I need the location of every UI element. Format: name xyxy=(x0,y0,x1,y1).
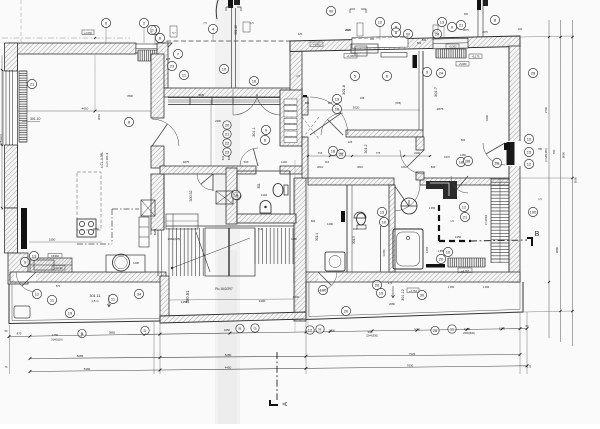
svg-text:+4,060: +4,060 xyxy=(313,44,321,47)
svg-text:23: 23 xyxy=(225,149,230,154)
exterior wall bottom right-section xyxy=(294,272,520,282)
exterior wall right xyxy=(509,46,520,282)
svg-text:1,5: 1,5 xyxy=(250,22,254,25)
svg-text:3+m 301.9: 3+m 301.9 xyxy=(105,153,109,168)
svg-text:775: 775 xyxy=(376,151,381,155)
room 301.8 boundaries xyxy=(422,51,424,130)
svg-text:2075: 2075 xyxy=(482,31,488,34)
duct shaft flue column xyxy=(280,90,302,146)
svg-text:19: 19 xyxy=(68,310,73,315)
svg-text:+1,380: +1,380 xyxy=(347,55,355,58)
svg-text:G: G xyxy=(253,325,256,330)
bed in room 300.52 xyxy=(166,214,198,229)
bottom dimension row 1 xyxy=(9,329,527,337)
svg-text:3020: 3020 xyxy=(353,106,360,110)
toilet lower bath xyxy=(357,213,366,225)
callout circles top strip xyxy=(101,18,110,27)
corridor bottom wall seg2 xyxy=(420,178,509,185)
svg-text:2080: 2080 xyxy=(414,328,421,332)
grid line extension double xyxy=(231,8,233,88)
svg-text:1,050: 1,050 xyxy=(425,246,429,253)
svg-text:20: 20 xyxy=(439,256,444,261)
svg-text:425: 425 xyxy=(298,33,303,36)
door swing xyxy=(197,174,213,190)
svg-text:20: 20 xyxy=(225,122,230,127)
right dim connectors xyxy=(520,36,573,37)
svg-text:21: 21 xyxy=(459,22,464,27)
svg-text:7,5: 7,5 xyxy=(203,22,207,25)
svg-text:B: B xyxy=(81,331,84,336)
svg-text:301.12: 301.12 xyxy=(401,289,405,301)
door swing xyxy=(483,143,505,165)
svg-text:12: 12 xyxy=(462,204,467,209)
svg-text:21: 21 xyxy=(30,81,35,86)
svg-text:840: 840 xyxy=(431,165,436,169)
stairwell left boundary lines xyxy=(157,230,159,276)
svg-text:36: 36 xyxy=(466,158,471,163)
svg-text:5000: 5000 xyxy=(574,176,578,183)
callout circles terrace top xyxy=(173,49,182,58)
black bar kitchenette xyxy=(426,264,445,268)
svg-text:D: D xyxy=(144,328,147,333)
svg-text:1360: 1360 xyxy=(499,327,506,331)
wall living/hall xyxy=(151,54,164,118)
svg-text:300: 300 xyxy=(464,13,469,16)
svg-text:5085: 5085 xyxy=(77,354,84,358)
svg-text:1460: 1460 xyxy=(460,153,466,157)
door swing xyxy=(400,150,424,174)
callout circles 301.8 xyxy=(350,71,359,80)
svg-text:28: 28 xyxy=(531,70,536,75)
svg-text:12: 12 xyxy=(527,161,532,166)
cooktop with burners xyxy=(77,219,96,237)
wc bottom wall hatch xyxy=(237,214,296,223)
svg-text:2880: 2880 xyxy=(555,246,559,253)
washbasin small 301.5 xyxy=(354,212,366,218)
grid line extension xyxy=(20,0,22,43)
svg-text:+4,763: +4,763 xyxy=(409,290,417,293)
svg-text:60/60: 60/60 xyxy=(153,228,157,235)
svg-text:8000: 8000 xyxy=(562,151,566,158)
svg-text:3865: 3865 xyxy=(109,331,116,335)
stair treads right stairwell xyxy=(491,179,509,262)
svg-text:301.10: 301.10 xyxy=(30,117,40,121)
bath partition walls xyxy=(346,185,348,272)
grid line extension double right xyxy=(477,0,479,40)
callout circles above window xyxy=(150,25,159,34)
svg-text:17x181/4: 17x181/4 xyxy=(484,214,488,225)
terrace 301.11 outline xyxy=(9,284,160,324)
label box terrace xyxy=(407,288,419,293)
radiator kitchenette bottom xyxy=(448,258,485,267)
svg-text:+5,980: +5,980 xyxy=(459,63,467,66)
wall step terrace-left xyxy=(157,43,168,88)
svg-text:+5,175: +5,175 xyxy=(472,56,480,59)
svg-text:20: 20 xyxy=(344,308,349,313)
partition bath xyxy=(389,185,395,272)
hall bottom wall segment xyxy=(160,166,256,174)
window band below wall xyxy=(168,97,282,99)
svg-text:1875: 1875 xyxy=(183,160,190,164)
svg-text:300.52: 300.52 xyxy=(189,191,193,202)
duct shaft with X xyxy=(141,200,155,216)
section line B-B xyxy=(470,240,527,241)
svg-text:100: 100 xyxy=(530,209,537,214)
svg-text:1400: 1400 xyxy=(327,222,333,226)
hall inner dividing line xyxy=(210,100,212,166)
svg-text:1550: 1550 xyxy=(49,238,56,242)
svg-text:165: 165 xyxy=(360,96,365,100)
svg-text:16: 16 xyxy=(335,106,340,111)
extension lines to bottom dims xyxy=(9,325,11,374)
svg-text:+2,060: +2,060 xyxy=(84,31,93,35)
svg-text:1140: 1140 xyxy=(281,160,287,164)
radiator below top-left window xyxy=(138,50,161,61)
door swing xyxy=(310,97,348,135)
dashed appliance zone in kitchen xyxy=(77,172,101,230)
svg-text:7800: 7800 xyxy=(127,94,133,98)
corridor bottom wall seg1 xyxy=(308,178,394,185)
window in top-left wall xyxy=(136,44,162,53)
svg-text:10: 10 xyxy=(222,66,227,71)
wall living/hall lower part xyxy=(151,146,164,168)
svg-text:24: 24 xyxy=(435,31,440,36)
svg-text:+4,763: +4,763 xyxy=(461,270,469,273)
dim 1550 kitchen xyxy=(29,241,102,243)
svg-text:410: 410 xyxy=(221,155,225,160)
interior wall line at x94 dim extension xyxy=(94,55,96,111)
svg-text:4835: 4835 xyxy=(198,93,204,97)
svg-text:1450: 1450 xyxy=(291,237,297,241)
terrace 301.10 dashed outline xyxy=(167,41,290,87)
right dim column lines xyxy=(548,20,550,338)
svg-text:+5,363: +5,363 xyxy=(449,46,457,49)
black step mark xyxy=(504,143,510,150)
svg-text:301.2: 301.2 xyxy=(364,145,368,154)
label boxes +5,363 etc xyxy=(446,44,459,49)
svg-text:125: 125 xyxy=(348,140,353,144)
corridor dim line xyxy=(308,155,430,157)
dashed wardrobe 301.8 corner xyxy=(302,117,319,139)
label box +4,763 xyxy=(458,268,472,273)
svg-text:Ru 16/2/297: Ru 16/2/297 xyxy=(215,287,233,291)
thick dashed partition horizontal xyxy=(439,240,471,242)
svg-text:500: 500 xyxy=(461,138,466,142)
svg-text:265/2(165): 265/2(165) xyxy=(168,237,181,241)
svg-text:(17281450): (17281450) xyxy=(544,148,548,161)
svg-text:2075: 2075 xyxy=(463,28,469,32)
wall terrace right side / section step xyxy=(290,41,302,97)
window mullions xyxy=(189,97,191,105)
kitchen zone dash-dot boundary xyxy=(111,209,113,244)
svg-text:10: 10 xyxy=(446,249,451,254)
svg-text:5180: 5180 xyxy=(84,367,91,371)
svg-text:21: 21 xyxy=(463,214,468,219)
svg-text:30: 30 xyxy=(420,292,425,297)
svg-text:301.10: 301.10 xyxy=(234,25,238,35)
exterior wall left xyxy=(5,43,18,71)
svg-text:+CL/98: +CL/98 xyxy=(54,267,63,270)
exterior wall top-left xyxy=(8,43,136,54)
svg-text:635: 635 xyxy=(227,155,231,160)
svg-text:5280: 5280 xyxy=(225,353,232,357)
stair direction line xyxy=(172,238,250,268)
svg-text:2610: 2610 xyxy=(317,165,323,169)
stairwell left wall xyxy=(160,276,169,321)
svg-text:1,350: 1,350 xyxy=(448,285,455,289)
svg-text:900: 900 xyxy=(328,101,333,105)
svg-text:21: 21 xyxy=(225,131,230,136)
bottom dimension row 2 xyxy=(30,355,520,359)
svg-text:18: 18 xyxy=(331,148,336,153)
scanner gray band xyxy=(215,0,240,424)
door opening right wall xyxy=(508,141,521,166)
svg-text:4450: 4450 xyxy=(224,328,231,332)
svg-text:3010: 3010 xyxy=(357,165,363,169)
svg-text:(765): (765) xyxy=(395,101,401,105)
radiator below window top-right xyxy=(436,49,466,58)
svg-text:1400: 1400 xyxy=(259,299,266,303)
door swing xyxy=(152,119,179,146)
left wall window glazing xyxy=(2,70,4,145)
svg-text:B: B xyxy=(535,231,540,238)
exterior wall left lower xyxy=(5,145,18,208)
scan artifact marks xyxy=(228,0,233,8)
svg-text:301.11: 301.11 xyxy=(89,294,100,298)
svg-text:3081: 3081 xyxy=(97,113,101,120)
door swing xyxy=(394,185,420,211)
label box +2,060 xyxy=(82,30,94,35)
stairwell right wall xyxy=(294,178,306,321)
svg-text:23: 23 xyxy=(170,63,175,68)
stairwell treads right run xyxy=(255,228,293,264)
svg-text:10: 10 xyxy=(527,136,532,141)
svg-text:715: 715 xyxy=(318,151,323,155)
toilet in wc xyxy=(273,184,283,197)
label box C5/60 xyxy=(48,254,62,259)
spine wall lower xyxy=(302,137,308,178)
door swing xyxy=(451,176,468,193)
svg-text:4610: 4610 xyxy=(82,107,89,111)
dash-dot level line top-left xyxy=(2,37,130,39)
section line A-A xyxy=(276,352,278,400)
svg-text:24: 24 xyxy=(439,70,444,75)
svg-text:15: 15 xyxy=(527,149,532,154)
spine wall upper xyxy=(302,97,308,115)
svg-text:W: W xyxy=(329,8,333,13)
stair top boundary xyxy=(166,225,294,227)
svg-text:500: 500 xyxy=(422,39,427,42)
door swing xyxy=(321,113,343,135)
scan artifact marks right xyxy=(477,0,481,10)
shower tray xyxy=(325,252,345,271)
door swing xyxy=(318,272,337,291)
callout circles corridor area xyxy=(328,146,337,155)
wall 300.52 right / shaft wall xyxy=(226,168,237,224)
label box vertical near window xyxy=(170,26,177,37)
stairwell 300.51 treads left run xyxy=(169,228,203,276)
svg-text:1,5 m: 1,5 m xyxy=(91,299,99,303)
svg-text:2020: 2020 xyxy=(345,29,351,32)
svg-text:301.7: 301.7 xyxy=(433,86,438,97)
svg-text:1550: 1550 xyxy=(93,227,99,231)
svg-text:13: 13 xyxy=(440,19,445,24)
left wall inner face line xyxy=(17,54,19,253)
planter box on terrace xyxy=(14,306,30,318)
svg-text:26: 26 xyxy=(375,282,380,287)
svg-text:3140(110): 3140(110) xyxy=(51,338,63,342)
svg-text:4400: 4400 xyxy=(485,114,489,121)
svg-text:301: 301 xyxy=(257,183,261,189)
svg-text:1455: 1455 xyxy=(181,300,188,304)
black chimney bar xyxy=(21,208,27,249)
svg-text:301.5: 301.5 xyxy=(352,236,356,244)
svg-text:780: 780 xyxy=(538,148,543,151)
left edge dimension line xyxy=(1,55,3,210)
stairwell bottom wall xyxy=(160,312,306,323)
hall window double door arcs xyxy=(233,94,258,115)
svg-text:1400: 1400 xyxy=(293,295,300,299)
exterior wall top middle-right xyxy=(290,36,520,52)
right wall inner face xyxy=(508,46,510,282)
balcony door panel right wall xyxy=(507,142,515,165)
exterior wall corner pier bottom-left xyxy=(8,253,28,284)
svg-text:12: 12 xyxy=(35,291,40,296)
opening bottom wall right-section door xyxy=(318,273,338,282)
leader lines top callouts xyxy=(105,27,107,43)
svg-text:115: 115 xyxy=(518,28,523,31)
svg-text:115: 115 xyxy=(325,160,330,164)
svg-text:34: 34 xyxy=(137,291,142,296)
svg-text:4-CL-A-38L: 4-CL-A-38L xyxy=(100,152,104,169)
bottom dimension row 3 xyxy=(30,366,527,372)
duct shaft X near vestibule xyxy=(216,191,233,204)
svg-text:13: 13 xyxy=(32,253,37,258)
corner bracket mark xyxy=(226,7,241,11)
svg-text:1140: 1140 xyxy=(261,193,267,197)
svg-text:DOL: DOL xyxy=(149,229,153,235)
svg-text:1,5: 1,5 xyxy=(538,198,542,201)
svg-text:2080: 2080 xyxy=(389,302,395,306)
wall chamfer corner to terrace step xyxy=(162,43,172,54)
counter segment 2 with sink circle xyxy=(106,255,145,272)
window sill dashed line in opening xyxy=(352,37,408,38)
svg-text:7630: 7630 xyxy=(407,364,414,368)
opening bottom wall kitchen door xyxy=(14,273,36,282)
svg-text:100: 100 xyxy=(320,287,327,292)
svg-text:301.8: 301.8 xyxy=(341,84,346,95)
wall living-bedroom lower xyxy=(151,174,164,230)
stair landing xyxy=(205,228,255,276)
svg-text:19: 19 xyxy=(335,96,340,101)
hall bottom wall right segment xyxy=(280,166,306,174)
svg-text:16: 16 xyxy=(234,192,239,197)
exterior wall bottom left-section xyxy=(10,272,166,282)
svg-text:10: 10 xyxy=(382,219,387,224)
callout circles right wall xyxy=(422,67,431,76)
kitchen corner counter dark L xyxy=(426,181,457,199)
dim row1 circles xyxy=(78,329,86,337)
svg-text:301.4: 301.4 xyxy=(315,233,319,241)
svg-text:12: 12 xyxy=(378,19,383,24)
radiator/shelf units in 301.8 recess xyxy=(351,44,378,53)
radiator at left window xyxy=(19,71,27,142)
svg-text:2400: 2400 xyxy=(215,119,221,123)
svg-text:1970: 1970 xyxy=(444,155,450,159)
corner bracket mark right xyxy=(350,9,366,13)
svg-text:1.0/50: 1.0/50 xyxy=(382,249,386,257)
svg-text:1350: 1350 xyxy=(464,327,471,331)
dim line 4610 in living room xyxy=(18,110,151,112)
svg-text:16: 16 xyxy=(252,78,257,83)
callout circles left rooms xyxy=(27,79,36,88)
thick dashed partition vertical xyxy=(438,205,440,243)
kitchen tall cabinet column xyxy=(139,217,149,247)
svg-text:13: 13 xyxy=(380,209,385,214)
window top-right with frame xyxy=(433,38,468,49)
exterior wall under terrace xyxy=(160,88,302,97)
dim 3020 in 301.8 xyxy=(305,109,420,111)
terrace 301.12 outline xyxy=(306,282,523,320)
door swing xyxy=(240,148,258,166)
wall corridor-kitchenette xyxy=(416,137,424,150)
svg-text:1,050: 1,050 xyxy=(429,206,436,210)
black bar near partition xyxy=(341,211,345,222)
svg-text:1750: 1750 xyxy=(52,333,59,337)
svg-text:2875: 2875 xyxy=(437,107,444,111)
svg-text:28: 28 xyxy=(433,328,438,333)
svg-text:26: 26 xyxy=(495,160,500,165)
svg-text:15: 15 xyxy=(379,290,384,295)
svg-text:2760: 2760 xyxy=(544,106,548,113)
window opening top wall xyxy=(352,36,408,48)
svg-text:500: 500 xyxy=(244,160,249,164)
partition 301.5-wc thin xyxy=(380,226,382,272)
svg-text:670: 670 xyxy=(56,284,61,288)
callout circles terraces bottom xyxy=(32,289,41,298)
black duct bar in 301.8 xyxy=(413,55,418,68)
svg-text:H: H xyxy=(319,326,322,331)
svg-text:780: 780 xyxy=(552,149,556,154)
room 300.52 walls xyxy=(163,174,165,230)
svg-text:R: R xyxy=(239,326,242,331)
svg-text:2240(530): 2240(530) xyxy=(463,331,475,335)
svg-text:7525: 7525 xyxy=(409,352,416,356)
svg-text:C5/960: C5/960 xyxy=(51,255,60,258)
svg-text:12: 12 xyxy=(308,327,313,332)
svg-text:1610: 1610 xyxy=(401,165,407,169)
corridor top wall xyxy=(346,130,423,137)
wall corridor-kitchenette b xyxy=(416,172,424,180)
svg-text:1,5: 1,5 xyxy=(388,281,392,285)
svg-text:425: 425 xyxy=(166,57,171,61)
svg-text:175: 175 xyxy=(527,365,532,369)
svg-text:2244(330): 2244(330) xyxy=(366,334,378,338)
svg-text:600: 600 xyxy=(305,101,310,105)
bathtub xyxy=(393,229,423,269)
svg-text:1408: 1408 xyxy=(133,261,139,265)
black mark top spine wall xyxy=(303,95,307,101)
svg-text:1350: 1350 xyxy=(455,235,462,239)
bathroom 301.3b sink circle xyxy=(401,198,417,214)
stair cut line xyxy=(196,232,210,272)
svg-text:600: 600 xyxy=(311,219,316,223)
kitchen sink unit xyxy=(34,260,54,270)
door swing xyxy=(16,272,36,292)
label box stack above wall xyxy=(357,23,363,36)
wc room 301.3 small xyxy=(237,171,290,215)
svg-text:301.1: 301.1 xyxy=(252,127,256,137)
